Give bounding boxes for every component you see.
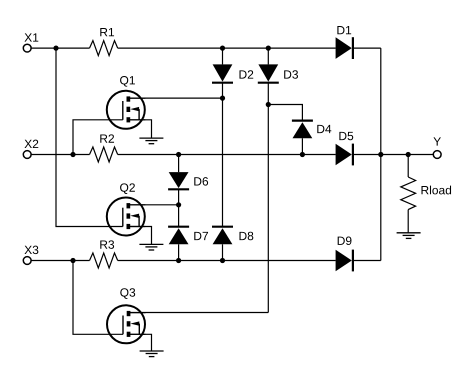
wire Q2 drain to D6 node [128,204,178,206]
wire Q1 source to ground [128,120,151,138]
label Q3 [120,288,135,299]
wire X2 to Q1 gate [73,120,123,155]
label X3 [24,246,38,255]
diode D9 [336,250,353,272]
wire D8 anode to row3 [222,244,224,260]
wire D4 anode to row2 [301,138,303,154]
transistor Q1 [107,91,146,129]
diode D1 [336,37,353,59]
label X1 [24,33,38,41]
transistor Q3 [107,305,146,343]
wire R2 to D5 [118,154,336,156]
wire Q2 source to ground [128,227,151,245]
node Q1 drain D2 [220,96,225,101]
node row2 D6 [176,152,181,157]
wire D7 anode to row3 [178,244,180,260]
label D3 [284,70,298,79]
wire D3 node to Q3 drain [267,105,269,313]
wire X1 to Q2 gate [56,48,123,226]
transistor Q2 [107,198,146,236]
wire row1 to D2 anode [222,48,224,64]
label R1 [100,28,114,36]
terminal Y [433,151,441,159]
ground Q3 [140,351,164,357]
label D6 [194,177,208,186]
label Rload [421,186,451,195]
wire X1 to R1 [31,47,89,49]
label R3 [100,240,114,249]
wire X2 to R2 [31,154,89,156]
node row2 D4 [300,152,305,157]
wire row2 to D6 anode [178,155,180,173]
resistor R3 [90,253,118,268]
wire D9 to right vertical [354,260,381,262]
wire Q1 drain to D2 node [128,97,222,99]
ground Q2 [139,244,163,250]
label D9 [338,237,352,246]
label Y [433,137,440,145]
ground Rload [397,233,421,239]
label X2 [24,140,38,148]
wire D5 to Y [354,154,433,156]
resistor R1 [90,41,118,56]
wire D1 to right vertical [354,47,381,49]
wire D2 cathode to D8 cathode [222,83,224,227]
resistor R2 [90,147,118,162]
label D2 [239,70,253,78]
wire Q3 source to ground [129,334,152,351]
diode D6 [168,172,189,189]
terminal X1 [23,44,31,52]
diode D7 [168,227,189,245]
label Q1 [120,76,135,87]
ground Q1 [139,138,163,144]
node row1 D3 [266,46,271,51]
terminal X2 [23,151,31,159]
diode D8 [212,227,233,245]
wire R3 to D9 [118,260,336,262]
wire row1 to D3 anode [267,48,269,64]
diode D3 [258,64,279,82]
label R2 [100,134,114,142]
diode D2 [212,64,233,82]
wire X3 to R3 [31,260,89,262]
label D8 [239,232,253,241]
node row1 D2 [220,46,225,51]
node X2 junction [70,152,75,157]
node Q2 drain D6 D7 [176,202,181,207]
node row2 right vertical [378,152,383,157]
wire D3 cathode to node [267,83,269,105]
label D5 [339,132,353,140]
label Q2 [120,183,135,194]
label D7 [194,232,208,240]
diode D5 [336,144,353,166]
wire D3 node to D4 cathode [268,105,302,121]
wire R1 to D1 [118,47,336,49]
wire X3 to Q3 gate [73,261,123,335]
wire node Y to Rload [407,155,409,178]
label D4 [317,125,331,133]
wire Rload to ground [407,210,409,233]
wire Q3 drain to D3 column [129,312,269,314]
resistor Rload [401,177,416,210]
node row3 D7 [176,258,181,263]
wire D6 cathode to D7 cathode [178,189,180,226]
terminal X3 [23,257,31,265]
diode D4 [292,121,313,139]
label D1 [337,26,351,34]
node row3 D8 [220,258,225,263]
node X1 junction [53,46,58,51]
node row2 Rload [406,152,411,157]
wire right vertical node Y [380,48,382,260]
node D3 D4 branch [266,102,271,107]
node X3 junction [70,258,75,263]
